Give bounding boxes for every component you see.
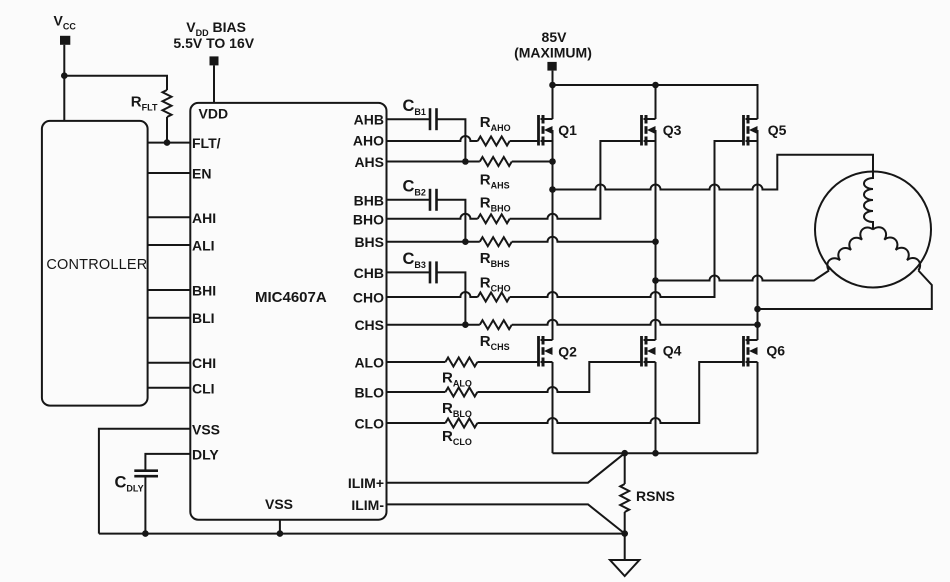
svg-text:Q6: Q6 (766, 343, 785, 359)
node 85V terminal (547, 62, 556, 85)
wire CB2 to BHS node (437, 200, 466, 242)
svg-text:AHS: AHS (354, 154, 384, 170)
junction rail Q4 source (652, 450, 659, 457)
resistor RSNS (620, 453, 629, 533)
svg-text:VDD: VDD (199, 105, 229, 121)
svg-text:85V: 85V (542, 29, 568, 45)
wire RCLO to Q6 gate (477, 362, 743, 423)
wire pin BHI (148, 289, 191, 291)
wire pin CHI (148, 362, 191, 364)
junction RSNS ground (621, 530, 628, 537)
junction phase A out (549, 186, 556, 193)
transistor Q1 (539, 115, 553, 146)
wire pin AHB (387, 118, 431, 120)
resistor RFLT (163, 90, 172, 117)
svg-text:CB3: CB3 (403, 250, 426, 270)
svg-text:CHB: CHB (354, 265, 384, 281)
wire pin BHO (387, 214, 478, 219)
svg-text:BHB: BHB (354, 192, 384, 208)
svg-text:RBLO: RBLO (442, 400, 472, 419)
svg-text:RFLT: RFLT (131, 94, 158, 113)
wire CB1 to AHS node (437, 119, 466, 161)
junction CB3-CHS (462, 321, 469, 328)
svg-text:ILIM+: ILIM+ (348, 475, 384, 491)
node VCC terminal (60, 36, 70, 121)
wire phase A to motor (553, 155, 874, 190)
svg-text:BHS: BHS (354, 234, 384, 250)
junction rail RSNS (621, 450, 628, 457)
svg-text:5.5V TO 16V: 5.5V TO 16V (173, 35, 254, 51)
junction VCC branch (61, 72, 68, 79)
wire pin BLI (148, 317, 191, 319)
svg-text:CLI: CLI (192, 380, 215, 396)
svg-text:VSS: VSS (265, 496, 293, 512)
wire pin ALO (387, 361, 446, 363)
wire bottom VSS rail (99, 533, 625, 535)
resistor RCHO (478, 293, 510, 302)
junction AHS phase A (549, 158, 556, 165)
svg-text:Q1: Q1 (558, 122, 577, 138)
wire phase B vertical (655, 130, 657, 340)
svg-text:Q5: Q5 (768, 122, 787, 138)
svg-text:RCHS: RCHS (480, 333, 510, 352)
svg-text:RBHO: RBHO (480, 195, 511, 214)
wire phase A vertical (552, 130, 554, 340)
svg-text:AHI: AHI (192, 210, 216, 226)
junction BHS phase B (652, 238, 659, 245)
svg-text:CB2: CB2 (403, 178, 426, 198)
junction CHS phase C (754, 321, 761, 328)
wire Q3 drain (655, 85, 657, 119)
junction FLT node (164, 139, 171, 146)
wire phase C to motor (758, 271, 932, 310)
junction rail Q3 (652, 82, 659, 89)
svg-text:CHO: CHO (353, 290, 384, 306)
wire Q6 source (757, 362, 759, 453)
wire pin DLY (145, 454, 190, 471)
wire RAHS to phase A (512, 161, 553, 163)
wire pin AHI (148, 216, 191, 218)
wire RBLO to Q4 gate (477, 362, 641, 392)
junction 85V rail (549, 82, 556, 89)
svg-text:Q4: Q4 (663, 343, 682, 359)
svg-text:BLO: BLO (354, 385, 384, 401)
ground symbol (610, 534, 639, 576)
svg-text:VSS: VSS (192, 421, 220, 437)
capacitor CB3 (430, 261, 437, 283)
svg-text:AHO: AHO (353, 133, 384, 149)
transistor Q4 (642, 336, 656, 367)
wire RCHO to Q5 gate (510, 141, 744, 297)
wire Q4 source (655, 362, 657, 453)
svg-text:ILIM-: ILIM- (351, 497, 384, 513)
transistor Q3 (642, 115, 656, 146)
resistor RCHS (480, 320, 512, 329)
resistor RAHS (480, 157, 512, 166)
svg-text:RCLO: RCLO (442, 428, 472, 447)
resistor RALO (445, 358, 477, 367)
wire pin BHB (387, 199, 431, 201)
junction CB2-BHS (462, 238, 469, 245)
wire RBHO to Q3 gate (510, 141, 642, 219)
wire pin CHO (387, 292, 478, 297)
svg-text:BHI: BHI (192, 283, 216, 299)
wire pin CLI (148, 387, 191, 389)
resistor RBHS (480, 237, 512, 246)
wire CDLY to ground rail (144, 476, 146, 533)
wire Q2 source (552, 362, 554, 453)
wire pin CLO (387, 422, 446, 424)
capacitor CB1 (430, 108, 437, 130)
svg-text:BLI: BLI (192, 310, 215, 326)
junction phase B out (652, 277, 659, 284)
svg-text:AHB: AHB (354, 112, 384, 128)
wire pin BLO (387, 391, 446, 393)
svg-text:RALO: RALO (442, 370, 472, 389)
svg-text:MIC4607A: MIC4607A (255, 289, 327, 306)
transistor Q6 (744, 336, 758, 367)
junction CB1-AHS (462, 158, 469, 165)
motor winding C (873, 227, 920, 270)
svg-text:BHO: BHO (353, 211, 384, 227)
svg-text:Q3: Q3 (663, 122, 682, 138)
svg-text:CLO: CLO (354, 416, 384, 432)
svg-text:RAHS: RAHS (480, 172, 510, 191)
wire pin ILIM- (387, 504, 625, 533)
wire RCHS to phase C (512, 320, 758, 325)
wire pin BHS (387, 241, 480, 243)
svg-text:VCC: VCC (54, 13, 77, 32)
wire Q1 drain (552, 85, 554, 119)
junction phase C out (754, 306, 761, 313)
transistor Q2 (539, 336, 553, 367)
capacitor CDLY (134, 471, 158, 477)
controller box (42, 121, 148, 406)
wire RALO to Q2 gate (477, 361, 538, 363)
junction VSS bottom (277, 530, 284, 537)
svg-text:ALO: ALO (354, 355, 384, 371)
wire phase B to motor (656, 271, 830, 281)
wire RFLT to FLT node (166, 117, 168, 143)
svg-text:CONTROLLER: CONTROLLER (46, 257, 147, 273)
wire pin ILIM+ (387, 453, 625, 483)
wire pin ALI (148, 244, 191, 246)
svg-text:ALI: ALI (192, 238, 215, 254)
junction CDLY rail (142, 530, 149, 537)
resistor RBHO (478, 214, 510, 223)
IC MIC4607A box (190, 103, 386, 520)
svg-text:CHS: CHS (354, 317, 384, 333)
motor circle (815, 172, 931, 288)
wire pin VSS bottom (279, 520, 281, 534)
svg-text:CB1: CB1 (403, 97, 426, 117)
wire pin EN (148, 172, 191, 174)
wire CB3 to CHS node (437, 272, 466, 324)
svg-text:FLT/: FLT/ (192, 135, 221, 151)
svg-text:RCHO: RCHO (480, 275, 511, 294)
svg-text:(MAXIMUM): (MAXIMUM) (514, 45, 592, 61)
svg-text:RBHS: RBHS (480, 250, 510, 269)
wire pin CHB (387, 271, 431, 273)
wire phase C vertical (757, 130, 759, 340)
capacitor CB2 (430, 189, 437, 211)
node VDD BIAS terminal (210, 56, 219, 103)
motor winding A (864, 172, 873, 230)
wire RBHS to phase B (512, 237, 656, 242)
wire RAHO to Q1 gate (510, 140, 539, 142)
wire pin FLT/ (148, 142, 191, 144)
wire pin CHS (387, 324, 480, 326)
resistor RBLO (445, 388, 477, 397)
svg-text:RAHO: RAHO (480, 114, 511, 133)
wire VCC to RFLT (64, 76, 167, 90)
wire low-side source rail (553, 452, 758, 454)
wire top 85V rail (553, 85, 758, 119)
svg-text:Q2: Q2 (558, 344, 577, 360)
resistor RAHO (478, 137, 510, 146)
svg-text:CHI: CHI (192, 355, 216, 371)
svg-text:EN: EN (192, 166, 211, 182)
transistor Q5 (744, 115, 758, 146)
motor winding B (827, 227, 873, 270)
wire pin AHS (387, 161, 480, 163)
wire pin AHO (387, 136, 478, 141)
svg-text:RSNS: RSNS (636, 488, 675, 504)
wire pin VSS left (99, 429, 190, 534)
svg-text:DLY: DLY (192, 446, 219, 462)
resistor RCLO (445, 419, 477, 428)
